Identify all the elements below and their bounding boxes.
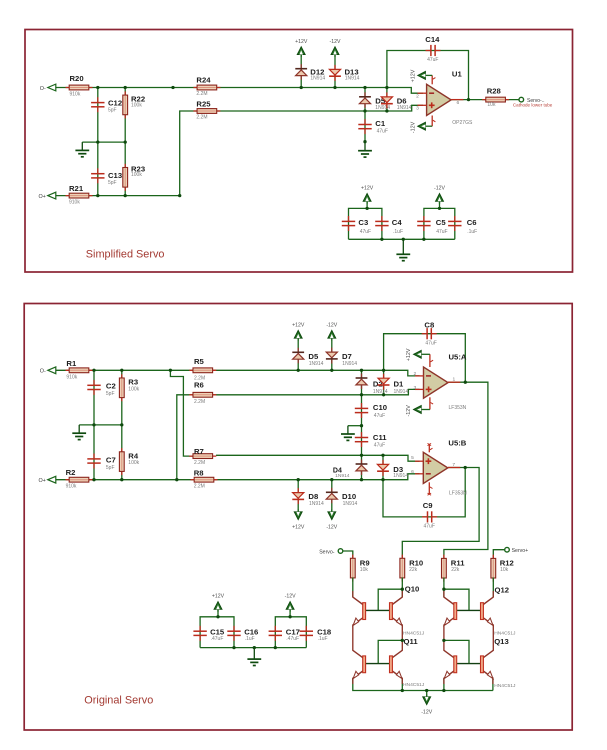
op-amp U5:B (423, 452, 448, 483)
junction dots top net (96, 86, 99, 89)
svg-text:LF353N: LF353N (449, 490, 467, 496)
svg-text:1N914: 1N914 (393, 473, 408, 479)
transistor Q10 dual pair (353, 597, 364, 605)
diode D10 (331, 488, 333, 504)
svg-text:22k: 22k (409, 567, 418, 573)
capacitor C4 (381, 216, 383, 221)
wire Q13 base connection (444, 640, 469, 663)
transistor Q11 dual pair (353, 650, 364, 658)
resistor R11 (443, 555, 445, 582)
resistor R23 (124, 164, 126, 191)
transistor Q12 dual pair (444, 597, 455, 605)
svg-text:5pF: 5pF (108, 180, 117, 186)
U5:A pin 1 output stub (448, 381, 460, 383)
resistor R20 (66, 87, 93, 89)
svg-text:C4: C4 (392, 218, 403, 227)
junction dot U5:B output (464, 466, 467, 469)
capacitor C3 (348, 216, 350, 221)
junction dot gnd branch (360, 424, 363, 427)
input pin O+ (48, 192, 56, 199)
wire D5 stub (364, 88, 366, 112)
wire D7 stub box2 (331, 338, 333, 371)
wire Q13 base rail (457, 663, 481, 665)
svg-text:5: 5 (411, 455, 414, 461)
svg-text:HN4C51J: HN4C51J (403, 631, 425, 637)
capacitor C11 (361, 432, 363, 437)
svg-text:U1: U1 (452, 69, 463, 78)
resistor R25 (193, 110, 220, 112)
power +12V above C3/C4 (366, 202, 368, 209)
junction dots O+ net box2 (92, 478, 95, 481)
wire O+ net (R8 net) (55, 474, 420, 480)
U5:A pin 3 stub (415, 388, 424, 390)
capacitor C5 (423, 216, 425, 221)
ground left box2 (78, 425, 80, 433)
wire D6 stub (386, 88, 388, 112)
svg-text:.1uF: .1uF (245, 636, 255, 642)
wire Q12 base connection (444, 589, 469, 610)
ground bypass caps (402, 239, 404, 254)
U1 V- power stub (431, 116, 433, 127)
junction dots bypass rails (365, 207, 368, 210)
svg-text:R8: R8 (194, 469, 205, 478)
svg-text:-12V: -12V (406, 405, 412, 417)
power -12V above D7 (331, 337, 333, 341)
svg-text:HN4C51J: HN4C51J (403, 682, 425, 688)
wire R7 net to U5:B pin 5 (216, 455, 420, 461)
svg-text:5pF: 5pF (106, 391, 115, 397)
wire D8 stub (297, 480, 299, 514)
svg-text:100k: 100k (131, 172, 142, 178)
svg-text:R2: R2 (66, 468, 76, 477)
svg-text:-12V: -12V (285, 594, 296, 600)
capacitor C7 (93, 454, 95, 459)
U5:B V- stub unconnected (428, 482, 430, 494)
svg-text:100k: 100k (128, 386, 139, 392)
wire O+ bottom net (55, 195, 180, 197)
resistor R12 (492, 555, 494, 582)
svg-text:+12V: +12V (295, 39, 308, 45)
wire C1 branch to ground (364, 111, 366, 142)
diode D13 (334, 65, 336, 81)
svg-text:R28: R28 (487, 86, 502, 95)
svg-text:C2: C2 (106, 382, 116, 391)
bypass cap rail C5 C6 (424, 208, 455, 239)
wire C14 feedback loop (387, 51, 469, 100)
wire Q10 base rail (366, 609, 390, 611)
svg-text:R5: R5 (194, 357, 205, 366)
power -12V below emitter rail (426, 691, 428, 698)
svg-text:.1uF: .1uF (318, 636, 328, 642)
U1 pin 3 red stub (418, 104, 427, 106)
wire R11 to Q12 left collector (443, 577, 445, 597)
svg-text:Simplified Servo: Simplified Servo (86, 249, 165, 261)
svg-text:+12V: +12V (410, 69, 416, 82)
wire D12 stub (300, 55, 302, 88)
wire C2-C7 vertical (93, 370, 95, 479)
svg-text:2.2M: 2.2M (194, 460, 205, 466)
svg-text:D10: D10 (342, 492, 356, 501)
svg-text:100k: 100k (128, 460, 139, 466)
svg-text:2: 2 (416, 94, 419, 100)
junction dots bottom net (96, 194, 99, 197)
svg-text:10k: 10k (360, 567, 369, 573)
svg-text:2: 2 (413, 371, 416, 377)
svg-text:1N914: 1N914 (310, 75, 325, 81)
svg-text:5pF: 5pF (106, 465, 115, 471)
resistor R5 (189, 369, 216, 371)
svg-text:+12V: +12V (292, 525, 305, 531)
svg-text:C14: C14 (425, 35, 440, 44)
svg-text:C6: C6 (467, 218, 477, 227)
svg-text:1N914: 1N914 (309, 361, 324, 367)
svg-text:47uF: 47uF (360, 229, 371, 235)
junction dots R25 net (363, 109, 366, 112)
resistor R10 (401, 555, 403, 582)
capacitor C13 (97, 168, 99, 173)
svg-text:1N914: 1N914 (394, 389, 409, 395)
svg-text:910k: 910k (66, 374, 77, 380)
wire R10 to Q10 right collector (401, 577, 403, 597)
pad Servo+ with wire (493, 550, 504, 559)
wire C8 feedback loop (384, 334, 466, 383)
svg-text:R24: R24 (196, 76, 211, 85)
svg-text:HN4C51J: HN4C51J (494, 631, 516, 637)
svg-text:.1uF: .1uF (393, 229, 403, 235)
capacitor C18 (305, 626, 307, 631)
svg-text:1N914: 1N914 (373, 389, 388, 395)
svg-text:10k: 10k (487, 102, 496, 108)
wire C10 C11 branch (361, 395, 363, 456)
U1 pin 6 output stub (451, 99, 463, 101)
svg-text:C15: C15 (210, 627, 225, 636)
diode D12 (300, 64, 302, 80)
resistor R1 (66, 369, 93, 371)
svg-text:C8: C8 (424, 321, 435, 330)
svg-text:2.2M: 2.2M (196, 91, 207, 97)
wire D4 vertical (361, 455, 363, 479)
svg-text:+12V: +12V (212, 594, 225, 600)
input pin O- box2 (48, 367, 56, 374)
svg-text:-12V: -12V (326, 323, 337, 329)
power +12V above D12 (300, 53, 302, 57)
svg-text:Q11: Q11 (404, 637, 419, 646)
capacitor C1 (364, 119, 366, 124)
resistor R2 (66, 479, 93, 481)
capacitor C16 (233, 626, 235, 631)
U5:A V- power stub (429, 397, 431, 409)
junction dot U1 output (467, 98, 470, 101)
svg-text:1: 1 (453, 377, 456, 383)
svg-text:910k: 910k (69, 200, 80, 206)
U1 V+ power stub (431, 75, 433, 84)
resistor R7 (189, 455, 216, 457)
ground left (81, 142, 83, 150)
svg-text:-12V: -12V (421, 710, 432, 716)
wire R3-R4 vertical (121, 370, 123, 479)
wire D3 vertical (382, 455, 384, 479)
wire Q11 base connection (378, 640, 402, 663)
U1 pin 2 red stub (418, 92, 427, 94)
svg-text:Q10: Q10 (405, 585, 420, 594)
svg-text:LF353N: LF353N (449, 405, 467, 411)
svg-text:C16: C16 (244, 627, 258, 636)
svg-text:47uF: 47uF (427, 57, 438, 63)
svg-text:+12V: +12V (292, 323, 305, 329)
resistor R8 (191, 479, 218, 481)
U5:A pin 2 stub (415, 375, 424, 377)
svg-text:2.2M: 2.2M (194, 484, 205, 490)
svg-text:1N914: 1N914 (335, 473, 350, 479)
wire R6 net to U5:A pin 3 (177, 389, 420, 479)
svg-text:Servo+: Servo+ (512, 548, 529, 554)
svg-text:R1: R1 (66, 359, 77, 368)
svg-text:C5: C5 (436, 218, 447, 227)
bypass cap rail C15 C16 (200, 617, 234, 648)
svg-text:D1: D1 (394, 379, 405, 388)
svg-text:1N914: 1N914 (343, 501, 358, 507)
svg-text:100k: 100k (131, 102, 142, 108)
transistor Q13 dual pair (444, 650, 455, 658)
svg-text:Original Servo: Original Servo (84, 694, 153, 706)
bypass cap rail C17 C18 (275, 617, 306, 648)
wire D1 vertical (383, 370, 385, 395)
wire R9 to Q10 left collector (352, 577, 354, 597)
power +12V below D8 (297, 510, 299, 514)
resistor R3 (121, 374, 123, 401)
junction dots middle net box2 (92, 423, 95, 426)
svg-text:R4: R4 (128, 451, 139, 460)
svg-text:R25: R25 (196, 100, 211, 109)
power +12V above C15/C16 (217, 610, 219, 617)
diode D8 (297, 488, 299, 504)
wire Q12 emitters down to Q13 collectors (443, 625, 445, 651)
resistor R22 (124, 91, 126, 118)
diode D1 (383, 374, 385, 390)
svg-text:10k: 10k (500, 567, 509, 573)
capacitor C9 feedback (422, 516, 427, 518)
wire D13 stub (334, 55, 336, 88)
svg-text:1N914: 1N914 (397, 105, 412, 111)
svg-text:3: 3 (413, 385, 416, 391)
svg-text:C11: C11 (373, 433, 387, 442)
U5:B pin 5 stub (415, 460, 423, 462)
wire R22-R23 vertical (124, 88, 126, 196)
svg-text:OP27GS: OP27GS (452, 120, 473, 126)
svg-text:D7: D7 (342, 352, 352, 361)
diode D6 (386, 92, 388, 108)
diode D7 (331, 348, 333, 364)
wire O- net to U5:A pin 2 (55, 370, 420, 376)
input pin O+ box2 (48, 476, 56, 483)
power -12V below D10 (331, 510, 333, 514)
svg-text:U5:A: U5:A (449, 353, 467, 362)
wire Q10 emitters down to Q11 collectors (352, 625, 354, 651)
resistor R28 (482, 99, 509, 101)
wire D2 vertical (361, 370, 363, 395)
wire D10 stub (331, 480, 333, 514)
wire U5:B output branches (402, 468, 479, 560)
svg-text:910k: 910k (70, 92, 81, 98)
bypass cap rail C3 C4 (349, 208, 382, 239)
resistor R21 (66, 195, 93, 197)
svg-text:.47uF: .47uF (211, 636, 224, 642)
svg-text:6: 6 (457, 100, 460, 106)
pad Servo- with wire (343, 551, 353, 559)
svg-text:U5:B: U5:B (448, 438, 466, 447)
power -12V above C17/C18 (289, 610, 291, 617)
op-amp U5:A (424, 367, 449, 398)
frame: Original Servo bounding box (24, 304, 572, 731)
wire crossover from O- net to R7 (170, 370, 193, 456)
wire emitter rail bottom (353, 678, 493, 690)
svg-text:47uF: 47uF (424, 524, 435, 530)
wire R12 to Q12 right collector (492, 577, 494, 597)
resistor R24 (193, 87, 220, 89)
svg-text:5pF: 5pF (108, 107, 117, 113)
svg-text:C18: C18 (317, 627, 332, 636)
svg-text:47uF: 47uF (436, 229, 447, 235)
junction dots middle net (96, 140, 99, 143)
wire middle gnd net box2 (79, 424, 122, 426)
svg-text:Cathode lower tube: Cathode lower tube (513, 103, 553, 108)
svg-text:-12V: -12V (434, 186, 445, 192)
svg-text:Q12: Q12 (495, 585, 510, 594)
svg-text:C17: C17 (286, 627, 300, 636)
svg-text:47uF: 47uF (377, 129, 388, 135)
wire op-amp output to R28 and pad (451, 99, 519, 101)
svg-text:D8: D8 (308, 492, 319, 501)
svg-text:1N914: 1N914 (345, 75, 360, 81)
svg-text:D5: D5 (308, 352, 319, 361)
svg-text:R21: R21 (69, 184, 84, 193)
capacitor C2 (93, 380, 95, 385)
capacitor C15 (199, 626, 201, 631)
svg-text:O+: O+ (38, 478, 45, 484)
svg-text:R3: R3 (128, 378, 138, 387)
svg-text:+12V: +12V (361, 186, 374, 192)
ground under C1 (364, 142, 366, 151)
svg-text:.47uF: .47uF (286, 636, 299, 642)
wire Q10 base connection (378, 589, 402, 610)
capacitor C14 feedback (426, 50, 431, 52)
U5:A V+ power stub (429, 354, 431, 367)
svg-text:R20: R20 (70, 74, 84, 83)
diode D5 (297, 348, 299, 364)
svg-text:-12V: -12V (330, 39, 341, 45)
svg-text:Q13: Q13 (494, 637, 509, 646)
U5:B pin 7 output stub (448, 467, 460, 469)
resistor R4 (121, 448, 123, 475)
wire U5:A output to R11 (444, 382, 488, 559)
svg-text:Servo-: Servo- (319, 549, 335, 555)
wire O- input net to op-amp pin 2 (top net) (55, 88, 424, 94)
capacitor C6 (454, 216, 456, 221)
svg-text:C13: C13 (108, 171, 122, 180)
wire C9 feedback loop (383, 468, 465, 517)
wire R25 net from O+ vertical to op-amp pin 3 (180, 105, 423, 195)
svg-text:R7: R7 (194, 447, 204, 456)
junction dots R7 net (360, 454, 363, 457)
svg-text:47uF: 47uF (374, 413, 385, 419)
frame: Simplified Servo bounding box (25, 30, 573, 273)
svg-text:C1: C1 (375, 119, 386, 128)
svg-text:1N914: 1N914 (309, 501, 324, 507)
svg-text:.1uF: .1uF (467, 229, 477, 235)
power +12V above D5 (297, 337, 299, 341)
svg-text:C9: C9 (423, 501, 433, 510)
svg-text:1N914: 1N914 (342, 361, 357, 367)
junction dots bypass rails box2 (216, 615, 219, 618)
diode D3 (382, 460, 384, 476)
svg-text:HN4C51J: HN4C51J (494, 683, 516, 689)
power -12V above C5/C6 (439, 202, 441, 209)
svg-text:O-: O- (40, 369, 46, 375)
junction dot U5:A output (464, 381, 467, 384)
svg-text:C3: C3 (358, 218, 368, 227)
ground bypass caps box2 (253, 648, 255, 660)
junction dots O- net box2 (92, 369, 95, 372)
svg-text:-12V: -12V (326, 525, 337, 531)
resistor R9 (352, 555, 354, 582)
capacitor C10 (361, 403, 363, 408)
svg-text:2.2M: 2.2M (196, 115, 207, 121)
wire Q12 base rail (457, 609, 481, 611)
svg-text:47uF: 47uF (374, 443, 385, 449)
svg-text:O-: O- (40, 86, 46, 92)
svg-text:6: 6 (411, 469, 414, 475)
junction dots transistor section (401, 588, 404, 591)
svg-text:R6: R6 (194, 381, 204, 390)
output pad Servo- (519, 97, 524, 102)
ground C10/C11 (347, 426, 349, 434)
svg-text:2.2M: 2.2M (194, 399, 205, 405)
svg-text:7: 7 (452, 462, 455, 468)
capacitor C17 (274, 626, 276, 631)
capacitor C12 (97, 97, 99, 102)
wire D5 stub box2 (297, 338, 299, 371)
wire C10 gnd stub (348, 425, 362, 427)
input pin O- (48, 84, 56, 91)
U5:B V+ stub unconnected (428, 444, 430, 453)
power -12V above D13 (334, 53, 336, 57)
svg-text:C12: C12 (108, 98, 122, 107)
resistor R6 (189, 394, 216, 396)
svg-text:47uF: 47uF (425, 340, 436, 346)
U5:B pin 6 stub (415, 473, 423, 475)
capacitor C8 feedback (422, 333, 427, 335)
svg-text:22k: 22k (451, 567, 460, 573)
svg-text:910k: 910k (66, 484, 77, 490)
svg-text:3: 3 (416, 106, 419, 112)
wire C12-C13 vertical (97, 88, 99, 196)
U5:B plus/minus (inverted) (426, 460, 432, 462)
wire middle gnd net (82, 141, 125, 143)
svg-text:C10: C10 (373, 403, 387, 412)
svg-text:O+: O+ (38, 194, 45, 200)
svg-text:+12V: +12V (406, 348, 412, 361)
svg-text:C7: C7 (106, 455, 116, 464)
svg-text:-12V: -12V (410, 121, 416, 133)
junction dots R6 net (360, 393, 363, 396)
op-amp U1 (427, 84, 452, 115)
wire Q11 base rail (366, 663, 390, 665)
